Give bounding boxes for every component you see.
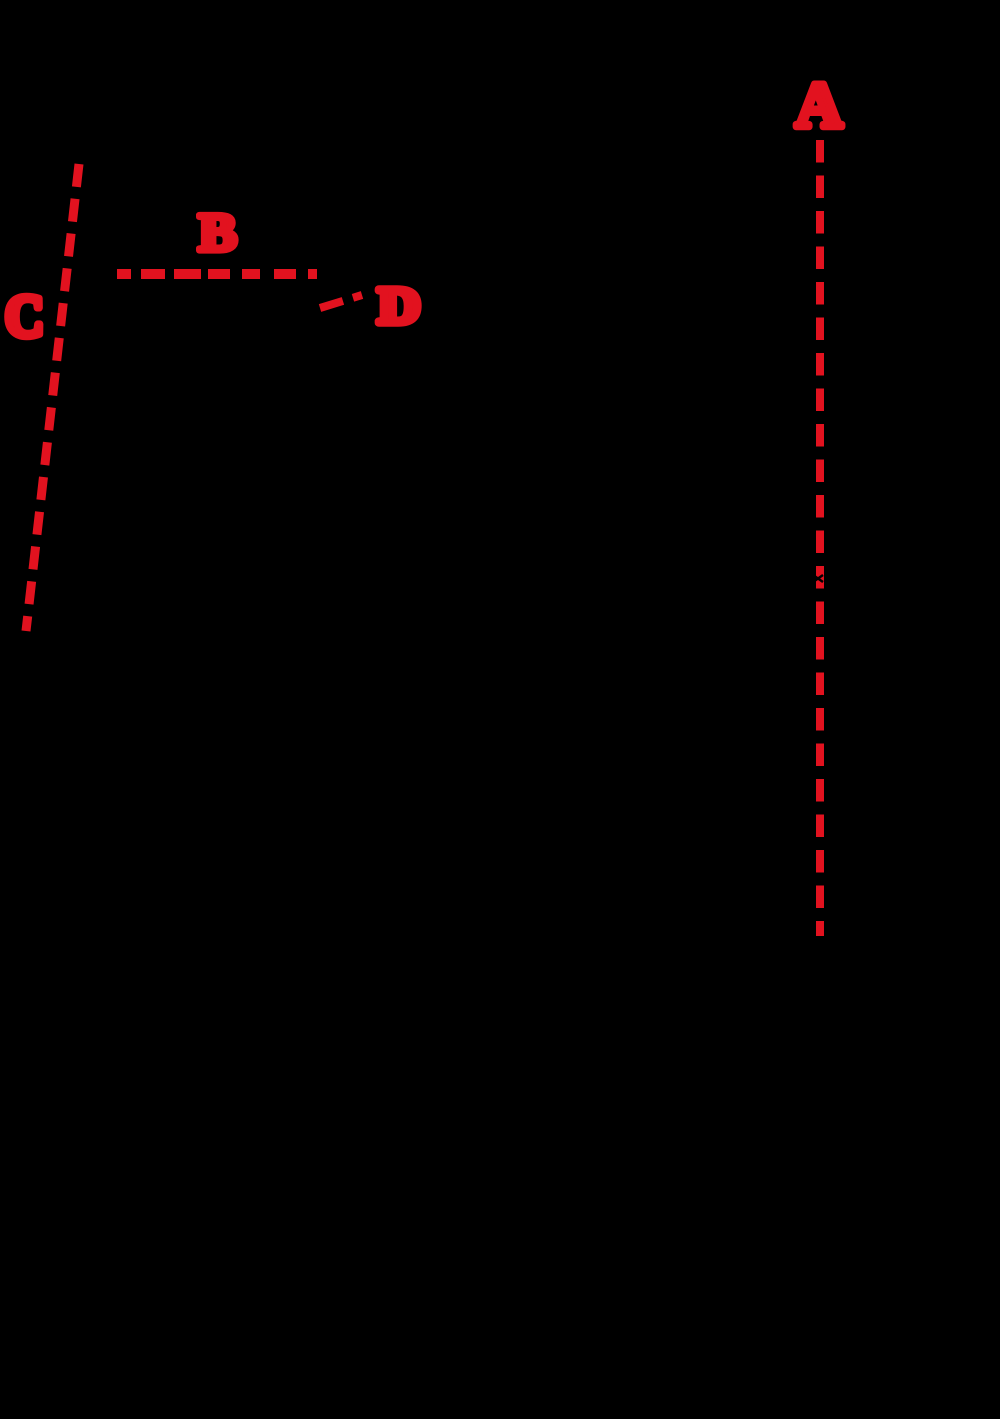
svg-text:D: D — [378, 278, 420, 335]
svg-text:B: B — [198, 203, 237, 263]
svg-text:A: A — [796, 70, 843, 142]
svg-text:C: C — [5, 284, 44, 350]
